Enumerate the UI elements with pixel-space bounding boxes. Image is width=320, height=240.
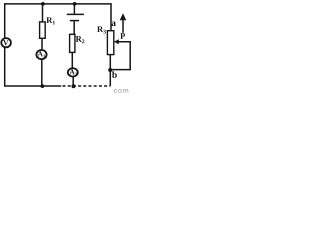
wire A1 to bottom — [41, 59, 43, 86]
wire R1 to A1 — [41, 38, 43, 50]
watermark fragment com — [114, 89, 128, 93]
battery short plate — [70, 20, 79, 22]
wire R2 to A2 — [71, 52, 73, 68]
wiper arrowhead pointing left at R3 — [114, 39, 119, 44]
node junction bottom A2 — [72, 84, 76, 88]
wire R1 branch upper — [42, 4, 44, 22]
ammeter A2 — [68, 68, 78, 76]
label R2 — [76, 36, 85, 43]
resistor R1 — [40, 22, 46, 38]
wire A2 to bottom — [72, 76, 74, 86]
wire slider direction arrow shaft — [122, 18, 124, 33]
node b label — [112, 71, 117, 78]
node junction bottom A1 — [41, 84, 45, 88]
label R3 — [97, 26, 106, 33]
wire battery to R2 — [73, 21, 75, 34]
wire wiper return path — [110, 42, 130, 70]
label R1 — [46, 17, 55, 24]
node b dot — [108, 68, 112, 72]
wire battery top stub — [73, 4, 75, 14]
resistor R3 rheostat — [107, 31, 113, 55]
node junction top R1 — [41, 2, 45, 6]
wire R3 bottom to b and bottom wire — [109, 55, 111, 87]
wire right vertical to R3 — [110, 3, 112, 30]
voltmeter V letter — [3, 40, 8, 45]
wire left vertical — [4, 3, 6, 86]
node junction top battery — [73, 2, 77, 6]
node a label — [112, 22, 116, 27]
battery long plate — [67, 13, 84, 15]
label P — [120, 33, 125, 39]
wire top horizontal — [4, 3, 112, 5]
resistor R2 — [70, 34, 75, 52]
wire bottom solid — [4, 85, 61, 87]
ammeter A1 letter — [38, 51, 45, 57]
wire bottom dashed — [63, 85, 110, 87]
voltmeter V — [1, 38, 11, 47]
ammeter A1 — [36, 50, 46, 59]
slider direction arrowhead up — [120, 13, 127, 20]
ammeter A2 letter — [69, 70, 76, 76]
